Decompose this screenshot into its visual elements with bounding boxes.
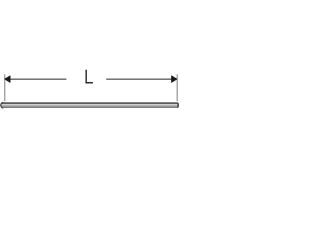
rod left end cap (1, 102, 4, 108)
right extension line (177, 74, 178, 101)
dimension line left segment (5, 78, 67, 81)
label L (86, 70, 93, 84)
rod (bar of length L) (1, 102, 179, 108)
rod right end cap (177, 102, 179, 108)
dimension line right segment (106, 78, 172, 81)
left extension line (4, 74, 5, 101)
right arrowhead (172, 76, 177, 83)
left arrowhead (5, 76, 10, 83)
